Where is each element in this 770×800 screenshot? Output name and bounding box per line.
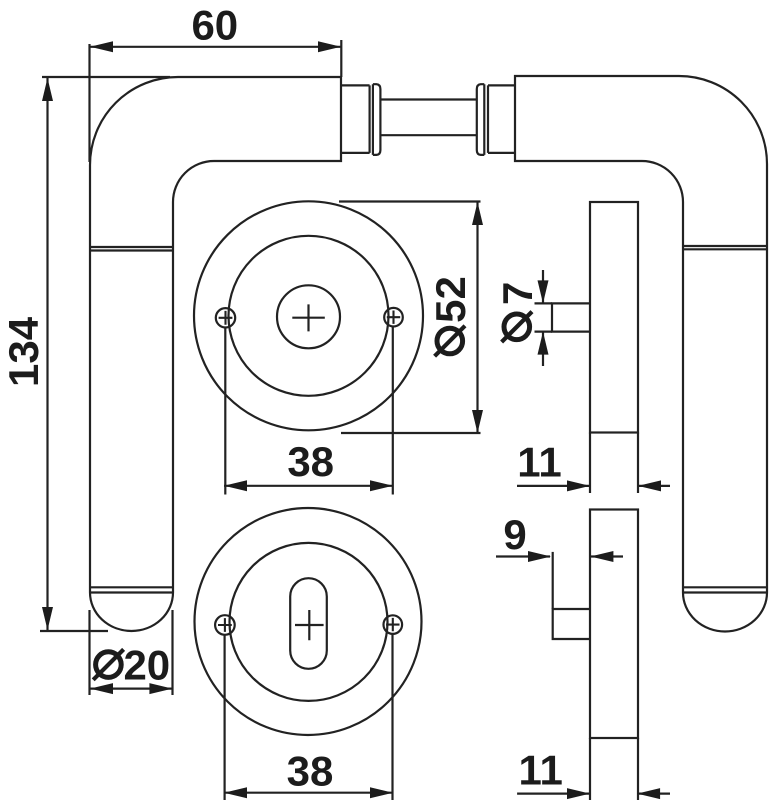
dim 38 top line — [224, 485, 393, 487]
svg-text:60: 60 — [191, 2, 238, 49]
dim 11 bottom extension lines — [590, 738, 638, 800]
dim O7 arrow shafts — [542, 270, 544, 366]
dim 38 top extension lines — [225, 327, 392, 495]
arrowheads dim 9 — [528, 551, 551, 562]
svg-text:38: 38 — [287, 748, 334, 795]
arrowheads dim 60 — [90, 41, 113, 52]
dim O7 extension lines — [535, 303, 553, 331]
side view bottom cylinder stub — [553, 609, 590, 639]
dim 60 line — [90, 46, 341, 48]
dim O52 line — [476, 202, 478, 433]
top rosette inner circle — [277, 285, 340, 348]
right handle outline — [515, 76, 767, 631]
diameter symbol of O52 — [437, 328, 463, 354]
arrowheads dim 38 bottom — [224, 787, 247, 798]
dim 38 bottom extension lines — [225, 634, 393, 800]
svg-text:20: 20 — [123, 642, 170, 689]
bottom screw right — [384, 615, 403, 634]
arrowheads dim 134 — [42, 78, 53, 101]
left handle joint line — [90, 247, 173, 251]
dim 9 arrow shafts — [496, 555, 623, 557]
right handle joint line — [683, 246, 767, 249]
top rosette middle circle — [229, 236, 389, 396]
spindle rod — [380, 100, 476, 136]
svg-text:38: 38 — [287, 438, 334, 485]
arrowheads dim O20 — [90, 683, 113, 694]
top screw left — [216, 308, 235, 327]
left handle cap line — [90, 587, 173, 592]
left collar — [373, 84, 381, 155]
dim 134 line — [46, 78, 48, 630]
dim O52 extension lines — [339, 202, 481, 434]
svg-text:11: 11 — [517, 439, 561, 486]
svg-text:11: 11 — [518, 747, 562, 794]
svg-text:52: 52 — [427, 276, 474, 323]
arrowheads dim 11 bottom — [567, 788, 590, 799]
side view top rosette rect — [590, 202, 638, 433]
side view top spindle stub — [552, 303, 590, 331]
arrowheads dim 38 top — [224, 480, 247, 491]
left collar ring — [372, 84, 374, 155]
dim 60 extension lines — [90, 40, 342, 162]
svg-text:7: 7 — [494, 282, 541, 305]
bottom spindle cross — [295, 610, 324, 640]
svg-text:134: 134 — [0, 316, 47, 387]
svg-text:9: 9 — [503, 511, 526, 558]
dim 11 top line — [517, 485, 670, 487]
arrowheads dim 11 top — [567, 480, 590, 491]
right collar — [477, 84, 485, 155]
bottom rosette outer circle — [195, 508, 422, 735]
top screw right — [384, 308, 403, 327]
right handle cap line — [683, 587, 767, 592]
left neck — [341, 85, 370, 152]
bottom rosette middle circle — [230, 543, 388, 701]
dim 9 extension line — [552, 552, 554, 609]
diameter symbol of O20 — [96, 652, 122, 678]
dim 38 bottom line — [224, 792, 393, 794]
dim 11 top extension lines — [590, 433, 638, 494]
right collar ring — [483, 84, 485, 155]
side view bottom rosette rect — [590, 510, 638, 739]
dim 11 bottom line — [517, 792, 670, 794]
dim O20 extension lines — [90, 610, 173, 695]
top spindle cross — [292, 304, 325, 331]
arrowheads dim O7 — [538, 280, 549, 303]
dim O20 line — [90, 687, 172, 689]
right neck — [488, 85, 515, 152]
arrowheads dim O52 — [472, 202, 483, 225]
diameter symbol of O7 — [504, 314, 530, 340]
bottom screw left — [215, 615, 235, 635]
dim 134 extension lines — [40, 77, 170, 631]
left handle outline — [90, 77, 341, 631]
top rosette outer circle — [194, 201, 423, 430]
keyhole capsule — [290, 578, 327, 669]
